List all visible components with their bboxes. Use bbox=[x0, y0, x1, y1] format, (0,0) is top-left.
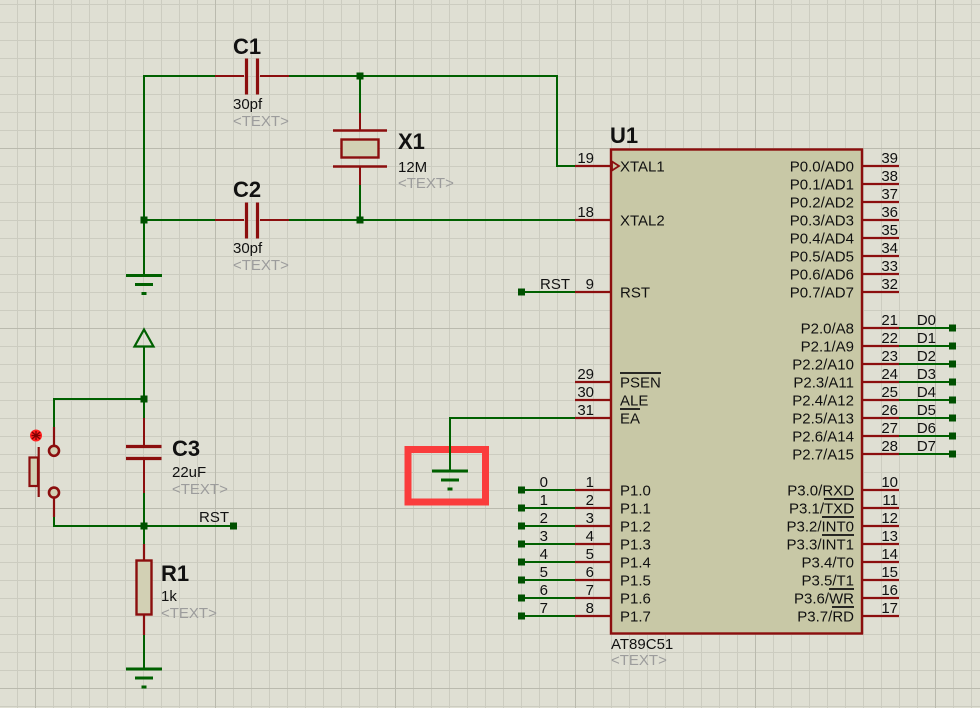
svg-text:D4: D4 bbox=[917, 384, 936, 401]
svg-text:P0.0/AD0: P0.0/AD0 bbox=[790, 159, 854, 176]
svg-text:R1: R1 bbox=[161, 561, 189, 586]
svg-text:<TEXT>: <TEXT> bbox=[398, 175, 454, 192]
svg-text:P1.4: P1.4 bbox=[620, 555, 651, 572]
svg-text:31: 31 bbox=[577, 402, 594, 419]
label AT89C51 bbox=[611, 636, 673, 653]
svg-text:4: 4 bbox=[540, 546, 548, 563]
pin 23 P2.2/A10 bbox=[792, 348, 899, 374]
wire/node 3: P1.3 wire to terminal bbox=[518, 528, 576, 548]
junction node at (144,220) bbox=[141, 217, 148, 224]
resistor R1 bbox=[137, 544, 152, 635]
svg-text:X1: X1 bbox=[398, 129, 425, 154]
value 30pf (C1) bbox=[233, 96, 263, 113]
wire: XTAL1 row into pin 19 bbox=[556, 165, 576, 167]
svg-text:9: 9 bbox=[586, 276, 594, 293]
value 1k (R1) bbox=[161, 588, 177, 605]
wire: EA ground vertical x=450 bbox=[449, 417, 451, 472]
svg-text:27: 27 bbox=[881, 420, 898, 437]
pin 19 XTAL1 bbox=[575, 150, 665, 176]
svg-text:<TEXT>: <TEXT> bbox=[233, 257, 289, 274]
pin 2 P1.1 bbox=[575, 492, 651, 518]
pin 6 P1.5 bbox=[575, 564, 651, 590]
svg-text:<TEXT>: <TEXT> bbox=[172, 481, 228, 498]
placeholder <TEXT> (X1) bbox=[398, 175, 454, 192]
svg-text:ALE: ALE bbox=[620, 393, 648, 410]
wire: top horizontal y=76 from corner to C1 bbox=[143, 75, 216, 77]
wire/node 6: P1.6 wire to terminal bbox=[518, 582, 576, 602]
pin 14 P3.4/T0 bbox=[801, 546, 899, 572]
placeholder <TEXT> (R1) bbox=[161, 605, 217, 622]
svg-text:P3.7/RD: P3.7/RD bbox=[797, 609, 854, 626]
ground symbol below R1 bbox=[126, 669, 162, 687]
terminal node RST wire end bbox=[230, 523, 237, 530]
wire: C3 top lead vertical bbox=[143, 398, 145, 419]
svg-text:12M: 12M bbox=[398, 159, 427, 176]
svg-text:15: 15 bbox=[881, 564, 898, 581]
svg-text:RST: RST bbox=[540, 276, 570, 293]
wire: XTAL2 row y=220 from C2 to pin 18 bbox=[288, 219, 576, 221]
terminal node RST left of pin 9 bbox=[518, 289, 525, 296]
pin 39 P0.0/AD0 bbox=[790, 150, 899, 176]
svg-text:P3.2/INT0: P3.2/INT0 bbox=[786, 519, 854, 536]
placeholder <TEXT> (C3) bbox=[172, 481, 228, 498]
svg-text:25: 25 bbox=[881, 384, 898, 401]
svg-text:C1: C1 bbox=[233, 34, 261, 59]
svg-text:34: 34 bbox=[881, 240, 898, 257]
wire: C1 net top-left corner vertical (x=144, y76-275) bbox=[143, 75, 145, 276]
svg-text:7: 7 bbox=[586, 582, 594, 599]
pin 4 P1.3 bbox=[575, 528, 651, 554]
pin 8 P1.7 bbox=[575, 600, 651, 626]
svg-text:AT89C51: AT89C51 bbox=[611, 636, 673, 653]
svg-text:P0.5/AD5: P0.5/AD5 bbox=[790, 249, 854, 266]
svg-text:<TEXT>: <TEXT> bbox=[161, 605, 217, 622]
pin 31 EA bbox=[575, 402, 640, 428]
wire/node 4: P1.4 wire to terminal bbox=[518, 546, 576, 566]
svg-text:23: 23 bbox=[881, 348, 898, 365]
svg-text:P1.6: P1.6 bbox=[620, 591, 651, 608]
pin 16 P3.6/WR bbox=[794, 582, 899, 608]
svg-text:28: 28 bbox=[881, 438, 898, 455]
svg-text:P0.4/AD4: P0.4/AD4 bbox=[790, 231, 854, 248]
svg-text:10: 10 bbox=[881, 474, 898, 491]
label C2 bbox=[233, 177, 261, 202]
pin 36 P0.3/AD3 bbox=[790, 204, 899, 230]
svg-text:P3.6/WR: P3.6/WR bbox=[794, 591, 854, 608]
svg-text:D6: D6 bbox=[917, 420, 936, 437]
pin 9 RST bbox=[575, 276, 650, 302]
svg-text:P1.7: P1.7 bbox=[620, 609, 651, 626]
svg-text:12: 12 bbox=[881, 510, 898, 527]
svg-text:<TEXT>: <TEXT> bbox=[611, 652, 667, 669]
pin 22 P2.1/A9 bbox=[801, 330, 899, 356]
junction node at (144,399) bbox=[141, 396, 148, 403]
svg-text:17: 17 bbox=[881, 600, 898, 617]
label C3 bbox=[172, 436, 200, 461]
svg-text:33: 33 bbox=[881, 258, 898, 275]
placeholder <TEXT> (C1) bbox=[233, 113, 289, 130]
wire: XTAL2 row y=220 junction to C2 bbox=[143, 219, 216, 221]
svg-text:P0.1/AD1: P0.1/AD1 bbox=[790, 177, 854, 194]
pin 28 P2.7/A15 bbox=[792, 438, 899, 464]
svg-text:14: 14 bbox=[881, 546, 898, 563]
svg-text:P1.0: P1.0 bbox=[620, 483, 651, 500]
push button (reset) bbox=[30, 427, 60, 517]
placeholder <TEXT> (C2) bbox=[233, 257, 289, 274]
svg-text:32: 32 bbox=[881, 276, 898, 293]
svg-text:13: 13 bbox=[881, 528, 898, 545]
wire/node 5: P1.5 wire to terminal bbox=[518, 564, 576, 584]
wire/net label D2 from pin 23 bbox=[899, 348, 956, 368]
svg-text:EA: EA bbox=[620, 411, 640, 428]
wire: power rail vertical x=144 arrow to junction bbox=[143, 346, 145, 400]
power symbol (arrow) top of reset branch bbox=[135, 330, 154, 347]
svg-text:P0.7/AD7: P0.7/AD7 bbox=[790, 285, 854, 302]
pin 38 P0.1/AD1 bbox=[790, 168, 899, 194]
net label RST (near pin 9) bbox=[540, 276, 570, 293]
svg-text:0: 0 bbox=[540, 474, 548, 491]
svg-text:RST: RST bbox=[620, 285, 650, 302]
svg-text:P2.7/A15: P2.7/A15 bbox=[792, 447, 854, 464]
svg-text:22uF: 22uF bbox=[172, 464, 206, 481]
pin 12 P3.2/INT0 bbox=[786, 510, 899, 536]
svg-text:5: 5 bbox=[586, 546, 594, 563]
svg-text:D2: D2 bbox=[917, 348, 936, 365]
net label RST (left circuit) bbox=[199, 509, 229, 526]
wire: vertical x=557 down to XTAL1 row bbox=[556, 75, 558, 166]
svg-text:P1.3: P1.3 bbox=[620, 537, 651, 554]
wire/net label D4 from pin 25 bbox=[899, 384, 956, 404]
svg-text:8: 8 bbox=[586, 600, 594, 617]
svg-text:1k: 1k bbox=[161, 588, 177, 605]
label U1 bbox=[610, 123, 638, 148]
svg-text:29: 29 bbox=[577, 366, 594, 383]
pin 7 P1.6 bbox=[575, 582, 651, 608]
svg-text:7: 7 bbox=[540, 600, 548, 617]
svg-text:D7: D7 bbox=[917, 438, 936, 455]
pin 29 PSEN bbox=[575, 366, 661, 392]
svg-text:P2.3/A11: P2.3/A11 bbox=[793, 375, 854, 392]
svg-text:P2.4/A12: P2.4/A12 bbox=[792, 393, 854, 410]
svg-text:P2.6/A14: P2.6/A14 bbox=[792, 429, 854, 446]
label C1 bbox=[233, 34, 261, 59]
wire/node 2: P1.2 wire to terminal bbox=[518, 510, 576, 530]
svg-text:11: 11 bbox=[882, 492, 898, 509]
value 22uF (C3) bbox=[172, 464, 206, 481]
svg-text:18: 18 bbox=[577, 204, 594, 221]
svg-text:36: 36 bbox=[881, 204, 898, 221]
svg-text:PSEN: PSEN bbox=[620, 375, 661, 392]
pin 26 P2.5/A13 bbox=[792, 402, 899, 428]
pin 37 P0.2/AD2 bbox=[790, 186, 899, 212]
svg-text:<TEXT>: <TEXT> bbox=[233, 113, 289, 130]
svg-text:22: 22 bbox=[881, 330, 898, 347]
pin 35 P0.4/AD4 bbox=[790, 222, 899, 248]
svg-text:C3: C3 bbox=[172, 436, 200, 461]
pin 34 P0.5/AD5 bbox=[790, 240, 899, 266]
ground symbol on EA net (inside red box) bbox=[432, 471, 468, 489]
svg-text:U1: U1 bbox=[610, 123, 638, 148]
capacitor C2 bbox=[215, 203, 289, 239]
wire: X1 bottom lead vertical bbox=[359, 184, 361, 220]
svg-text:3: 3 bbox=[586, 510, 594, 527]
wire/net label D5 from pin 26 bbox=[899, 402, 956, 422]
wire/node 7: P1.7 wire to terminal bbox=[518, 600, 576, 620]
pin 3 P1.2 bbox=[575, 510, 651, 536]
pin 1 P1.0 bbox=[575, 474, 651, 500]
wire: EA horizontal y=418 bbox=[450, 417, 576, 419]
svg-text:P1.1: P1.1 bbox=[620, 501, 651, 518]
svg-text:P3.1/TXD: P3.1/TXD bbox=[789, 501, 854, 518]
value 12M (X1) bbox=[398, 159, 427, 176]
pin 17 P3.7/RD bbox=[797, 600, 899, 626]
svg-text:C2: C2 bbox=[233, 177, 261, 202]
op: IC U1 AT89C51 body bbox=[611, 150, 862, 634]
svg-text:1: 1 bbox=[540, 492, 548, 509]
svg-text:P0.3/AD3: P0.3/AD3 bbox=[790, 213, 854, 230]
pin 18 XTAL2 bbox=[575, 204, 665, 230]
svg-text:3: 3 bbox=[540, 528, 548, 545]
svg-text:1: 1 bbox=[586, 474, 594, 491]
wire: C3 bottom lead vertical bbox=[143, 492, 145, 527]
pin 10 P3.0/RXD bbox=[787, 474, 899, 500]
wire/net label D1 from pin 22 bbox=[899, 330, 956, 350]
wire: button bottom vertical x=54 bbox=[53, 516, 55, 527]
wire/net label D3 from pin 24 bbox=[899, 366, 956, 386]
svg-text:2: 2 bbox=[540, 510, 548, 527]
pin 21 P2.0/A8 bbox=[801, 312, 899, 338]
wire/net label D7 from pin 28 bbox=[899, 438, 956, 458]
value 30pf (C2) bbox=[233, 240, 263, 257]
svg-text:39: 39 bbox=[881, 150, 898, 167]
svg-text:P3.5/T1: P3.5/T1 bbox=[801, 573, 854, 590]
svg-text:RST: RST bbox=[199, 509, 229, 526]
svg-text:P1.2: P1.2 bbox=[620, 519, 651, 536]
pin 25 P2.4/A12 bbox=[792, 384, 899, 410]
svg-text:21: 21 bbox=[881, 312, 898, 329]
pin 27 P2.6/A14 bbox=[792, 420, 899, 446]
svg-text:D0: D0 bbox=[917, 312, 936, 329]
junction node at (360,76) bbox=[357, 73, 364, 80]
svg-text:16: 16 bbox=[881, 582, 898, 599]
red highlight box around ground bbox=[408, 450, 486, 503]
svg-text:38: 38 bbox=[881, 168, 898, 185]
svg-text:P0.2/AD2: P0.2/AD2 bbox=[790, 195, 854, 212]
pin 15 P3.5/T1 bbox=[801, 564, 899, 590]
svg-text:P2.2/A10: P2.2/A10 bbox=[792, 357, 854, 374]
wire: R1 top lead vertical bbox=[143, 525, 145, 545]
svg-text:P0.6/AD6: P0.6/AD6 bbox=[790, 267, 854, 284]
svg-text:XTAL1: XTAL1 bbox=[620, 159, 665, 176]
junction node at (144,526) bbox=[141, 523, 148, 530]
svg-text:P3.4/T0: P3.4/T0 bbox=[801, 555, 854, 572]
pin 33 P0.6/AD6 bbox=[790, 258, 899, 284]
pin 24 P2.3/A11 bbox=[793, 366, 899, 392]
svg-text:19: 19 bbox=[577, 150, 594, 167]
svg-text:6: 6 bbox=[540, 582, 548, 599]
pin 30 ALE bbox=[575, 384, 648, 410]
capacitor C1 bbox=[215, 59, 289, 95]
svg-text:26: 26 bbox=[881, 402, 898, 419]
wire: X1 top lead vertical bbox=[359, 76, 361, 114]
svg-text:6: 6 bbox=[586, 564, 594, 581]
pin 32 P0.7/AD7 bbox=[790, 276, 899, 302]
wire: button top vertical x=54 bbox=[53, 398, 55, 428]
svg-text:30pf: 30pf bbox=[233, 96, 263, 113]
svg-text:D3: D3 bbox=[917, 366, 936, 383]
svg-text:P2.0/A8: P2.0/A8 bbox=[801, 321, 854, 338]
svg-text:P2.5/A13: P2.5/A13 bbox=[792, 411, 854, 428]
svg-text:2: 2 bbox=[586, 492, 594, 509]
pin 11 P3.1/TXD bbox=[789, 492, 899, 518]
ground symbol below C2 bbox=[126, 276, 162, 294]
wire: RST node to pin 9 bbox=[521, 291, 576, 293]
wire: R1 bottom lead to ground bbox=[143, 634, 145, 670]
svg-text:XTAL2: XTAL2 bbox=[620, 213, 665, 230]
capacitor C3 bbox=[126, 418, 162, 493]
svg-text:5: 5 bbox=[540, 564, 548, 581]
svg-text:37: 37 bbox=[881, 186, 898, 203]
wire: top horizontal y=76 from C1 to corner x=557 bbox=[288, 75, 558, 77]
pin 13 P3.3/INT1 bbox=[786, 528, 899, 554]
svg-text:D5: D5 bbox=[917, 402, 936, 419]
svg-text:4: 4 bbox=[586, 528, 594, 545]
svg-text:35: 35 bbox=[881, 222, 898, 239]
wire/net label D0 from pin 21 bbox=[899, 312, 956, 332]
svg-text:30: 30 bbox=[577, 384, 594, 401]
svg-text:30pf: 30pf bbox=[233, 240, 263, 257]
wire: horizontal y=399 junction to button branch bbox=[53, 398, 145, 400]
label R1 bbox=[161, 561, 189, 586]
wire/node 0: P1.0 wire to terminal bbox=[518, 474, 576, 494]
crystal X1 bbox=[333, 113, 387, 185]
wire: RST horizontal y=526 bbox=[53, 525, 233, 527]
svg-text:P3.3/INT1: P3.3/INT1 bbox=[786, 537, 854, 554]
wire/node 1: P1.1 wire to terminal bbox=[518, 492, 576, 512]
placeholder <TEXT> (U1) bbox=[611, 652, 667, 669]
svg-text:D1: D1 bbox=[917, 330, 936, 347]
junction node at (360,220) bbox=[357, 217, 364, 224]
svg-text:P3.0/RXD: P3.0/RXD bbox=[787, 483, 854, 500]
svg-text:P2.1/A9: P2.1/A9 bbox=[801, 339, 854, 356]
label X1 bbox=[398, 129, 425, 154]
svg-text:24: 24 bbox=[881, 366, 898, 383]
pin 5 P1.4 bbox=[575, 546, 651, 572]
wire/net label D6 from pin 27 bbox=[899, 420, 956, 440]
svg-text:P1.5: P1.5 bbox=[620, 573, 651, 590]
